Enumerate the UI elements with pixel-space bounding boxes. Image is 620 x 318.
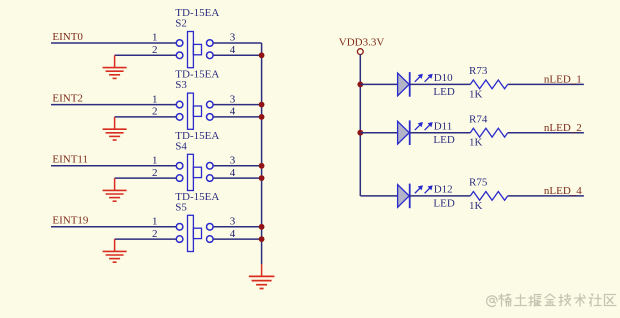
svg-text:S2: S2	[175, 18, 187, 30]
svg-text:nLED_1: nLED_1	[544, 74, 582, 86]
svg-text:S5: S5	[175, 201, 187, 213]
svg-text:R73: R73	[469, 65, 488, 77]
svg-text:D10: D10	[434, 72, 453, 84]
svg-text:S3: S3	[175, 79, 187, 91]
svg-text:D11: D11	[434, 120, 453, 132]
svg-text:nLED_2: nLED_2	[544, 122, 582, 134]
svg-text:R75: R75	[469, 177, 488, 189]
svg-text:EINT2: EINT2	[52, 92, 83, 104]
svg-text:EINT19: EINT19	[52, 215, 89, 227]
svg-text:D12: D12	[434, 184, 453, 196]
svg-text:S4: S4	[175, 140, 187, 152]
svg-text:VDD3.3V: VDD3.3V	[339, 36, 385, 48]
svg-text:EINT0: EINT0	[52, 31, 83, 43]
svg-text:R74: R74	[469, 114, 488, 126]
svg-text:nLED_4: nLED_4	[544, 185, 582, 197]
svg-text:EINT11: EINT11	[52, 154, 88, 166]
